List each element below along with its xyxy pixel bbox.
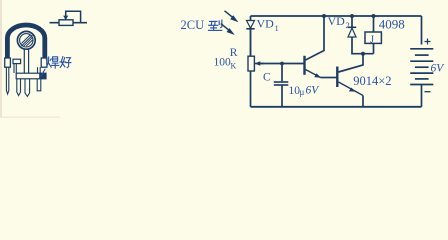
left scan edge tint [0, 0, 2, 118]
transistor Q1 emitter [306, 70, 321, 78]
transistor Q2 emitter [339, 82, 364, 96]
battery top lead [421, 16, 423, 45]
wiper arrow [255, 61, 264, 66]
VD2 bottom lead and node wire [352, 37, 374, 53]
svg-text:4098: 4098 [379, 16, 405, 31]
Q1 emitter to Q2 base [321, 77, 337, 79]
pin below crossbar right [37, 79, 41, 91]
svg-text:1: 1 [275, 23, 279, 33]
svg-text:2: 2 [346, 20, 350, 30]
label 焊好 leader line [41, 69, 46, 77]
svg-text:μ: μ [300, 87, 305, 97]
photoresistor outer ring [17, 31, 35, 49]
VD2 branch top lead [351, 16, 353, 27]
bottom rail wire [251, 106, 422, 108]
pin below crossbar left [17, 79, 21, 96]
Q2 emitter drop [362, 96, 364, 107]
svg-text:R: R [230, 47, 238, 59]
junction dot node VD2-relay [361, 52, 365, 56]
label 好 (hand-drawn strokes) [60, 57, 71, 68]
second post lines [14, 64, 16, 73]
jumper symbol component box [59, 20, 73, 26]
svg-text:100: 100 [214, 57, 232, 69]
relay bottom lead [373, 44, 375, 54]
jumper symbol wire loop [66, 11, 81, 22]
transistor Q1 bar [303, 56, 305, 75]
pin below crossbar middle [25, 79, 30, 97]
right terminal collar [41, 58, 47, 67]
svg-text:C: C [263, 72, 271, 84]
svg-text:10: 10 [289, 85, 301, 97]
relay top lead [373, 16, 375, 32]
svg-text:K: K [231, 62, 237, 71]
junction dot rail VD2 [350, 14, 354, 18]
wire R bottom to rail [250, 71, 252, 107]
transistor Q2 bar [336, 67, 338, 88]
wiper to base wire [257, 63, 304, 65]
photoresistor holder arch [7, 25, 44, 58]
label minus [425, 91, 431, 93]
jumper symbol base lead [50, 22, 88, 24]
left vertical wire VD1-R [250, 16, 252, 56]
battery bottom lead [421, 85, 423, 107]
light arrow 1 [225, 11, 239, 22]
potentiometer R [248, 56, 254, 71]
solder joint block [39, 73, 46, 79]
relay coil J box [365, 32, 381, 43]
bottom scan edge tint [0, 117, 60, 119]
svg-text:2CU: 2CU [181, 18, 205, 32]
Q1 collector riser [306, 16, 325, 60]
cap top lead [281, 64, 283, 82]
svg-text:J: J [370, 35, 374, 46]
junction dot rail relay [372, 14, 376, 18]
photodiode VD1 [246, 20, 254, 56]
battery cell plates [410, 49, 433, 85]
photoresistor hatch lines [21, 35, 32, 46]
diode VD2 flyback [348, 27, 356, 37]
junction dot rail Q1 [322, 14, 326, 18]
jumper symbol arrow into box [63, 16, 68, 21]
node descent to Q2 collector [339, 54, 364, 72]
label plus [425, 39, 431, 45]
left terminal collar [5, 58, 11, 67]
node dot wiper-cap [280, 62, 284, 66]
right post lines [38, 67, 41, 73]
capacitor C plates [274, 82, 289, 85]
label 型 (hand-drawn strokes) [209, 20, 222, 30]
svg-text:9014×2: 9014×2 [353, 74, 391, 88]
svg-text:VD: VD [257, 17, 275, 31]
photoresistor neck leads [24, 49, 28, 73]
svg-text:6V: 6V [306, 85, 321, 97]
left terminal pin [6, 68, 8, 95]
photoresistor inner ring [20, 34, 33, 47]
terminal strip crossbar [16, 73, 46, 79]
light arrow 2 [221, 24, 235, 35]
top rail wire [251, 15, 422, 17]
cap bottom lead [281, 85, 283, 107]
label 焊 (hand-drawn strokes) [46, 57, 59, 68]
second post small box [13, 59, 21, 63]
